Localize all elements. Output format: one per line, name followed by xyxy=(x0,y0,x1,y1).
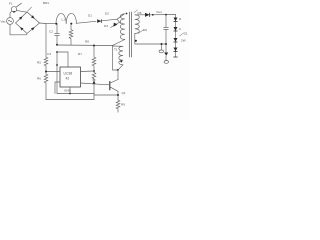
svg-text:F1: F1 xyxy=(9,2,13,6)
svg-text:R9: R9 xyxy=(121,103,125,107)
svg-text:R8: R8 xyxy=(85,40,89,44)
svg-text:42: 42 xyxy=(66,77,70,81)
svg-text:D3: D3 xyxy=(104,24,108,28)
svg-text:BR1: BR1 xyxy=(43,1,49,5)
svg-text:Vac: Vac xyxy=(1,19,7,23)
svg-text:C3: C3 xyxy=(47,52,51,56)
svg-text:GND: GND xyxy=(64,89,72,93)
svg-text:2W: 2W xyxy=(181,39,186,43)
svg-text:T1: T1 xyxy=(114,48,118,52)
svg-text:D2: D2 xyxy=(105,12,109,16)
svg-text:D6: D6 xyxy=(143,28,147,32)
svg-text:Q1: Q1 xyxy=(122,91,126,95)
svg-text:L1: L1 xyxy=(62,18,66,22)
svg-text:R6: R6 xyxy=(37,77,41,81)
svg-text:R5: R5 xyxy=(37,61,41,65)
svg-text:UC38: UC38 xyxy=(64,72,73,76)
svg-text:Z1: Z1 xyxy=(184,32,188,36)
svg-text:Vout: Vout xyxy=(156,10,162,14)
svg-text:R7: R7 xyxy=(78,52,82,56)
svg-text:D5: D5 xyxy=(138,11,142,15)
svg-text:C2: C2 xyxy=(49,30,53,34)
svg-text:D1: D1 xyxy=(88,14,92,18)
